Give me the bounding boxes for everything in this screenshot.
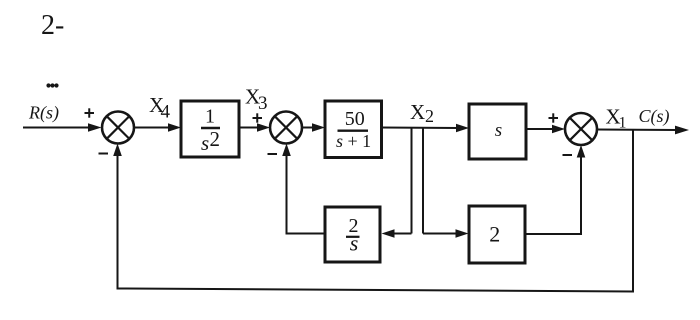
svg-text:X: X — [410, 100, 425, 124]
svg-text:2: 2 — [489, 222, 500, 247]
svg-text:1: 1 — [619, 115, 627, 132]
svg-text:2: 2 — [210, 127, 221, 151]
svg-text:s: s — [201, 131, 209, 155]
svg-text:C(s): C(s) — [639, 106, 670, 127]
svg-text:2-: 2- — [41, 10, 64, 41]
svg-text:s + 1: s + 1 — [336, 131, 371, 151]
svg-text:1: 1 — [205, 106, 215, 128]
svg-text:4: 4 — [161, 102, 171, 123]
svg-text:3: 3 — [258, 93, 268, 114]
svg-text:50: 50 — [345, 108, 365, 130]
svg-text:2: 2 — [425, 106, 434, 126]
svg-text:R(s): R(s) — [28, 103, 59, 124]
svg-text:s: s — [350, 231, 359, 256]
svg-text:s: s — [495, 120, 502, 141]
